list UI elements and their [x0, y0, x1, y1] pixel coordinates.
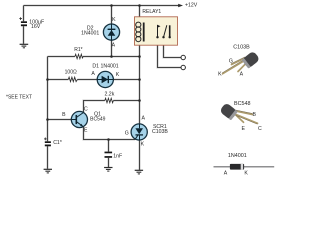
svg-text:100Ω: 100Ω	[65, 70, 77, 76]
svg-text:K: K	[116, 72, 120, 78]
svg-text:A: A	[141, 116, 145, 122]
svg-text:+12V: +12V	[185, 2, 198, 8]
svg-text:D1 1N4001: D1 1N4001	[92, 64, 118, 70]
svg-text:R1*: R1*	[74, 47, 82, 53]
svg-text:E: E	[84, 128, 88, 134]
svg-text:BC548: BC548	[234, 101, 250, 107]
svg-text:B: B	[62, 112, 66, 118]
svg-text:2.2k: 2.2k	[104, 91, 114, 97]
svg-text:C: C	[84, 106, 88, 112]
svg-text:C103B: C103B	[152, 129, 168, 135]
svg-text:G: G	[125, 131, 129, 137]
svg-text:1N4001: 1N4001	[81, 30, 99, 36]
svg-text:K: K	[141, 141, 145, 147]
svg-text:C: C	[258, 126, 262, 132]
svg-text:RELAY1: RELAY1	[142, 9, 161, 15]
svg-text:A: A	[240, 72, 244, 78]
svg-text:BC549: BC549	[90, 116, 106, 122]
svg-text:C103B: C103B	[233, 45, 250, 51]
svg-text:A: A	[224, 171, 228, 177]
svg-text:A: A	[91, 71, 95, 77]
svg-text:E: E	[241, 126, 245, 132]
svg-text:B: B	[252, 112, 256, 118]
svg-text:A: A	[112, 42, 116, 48]
svg-text:*SEE TEXT: *SEE TEXT	[6, 94, 32, 100]
svg-text:K: K	[112, 17, 116, 23]
svg-text:K: K	[218, 72, 222, 78]
svg-text:K: K	[244, 171, 248, 177]
svg-text:G: G	[229, 59, 233, 65]
svg-text:1nF: 1nF	[113, 153, 122, 159]
svg-text:16V: 16V	[31, 24, 41, 30]
svg-text:C1*: C1*	[53, 140, 62, 146]
svg-text:1N4001: 1N4001	[228, 153, 247, 159]
